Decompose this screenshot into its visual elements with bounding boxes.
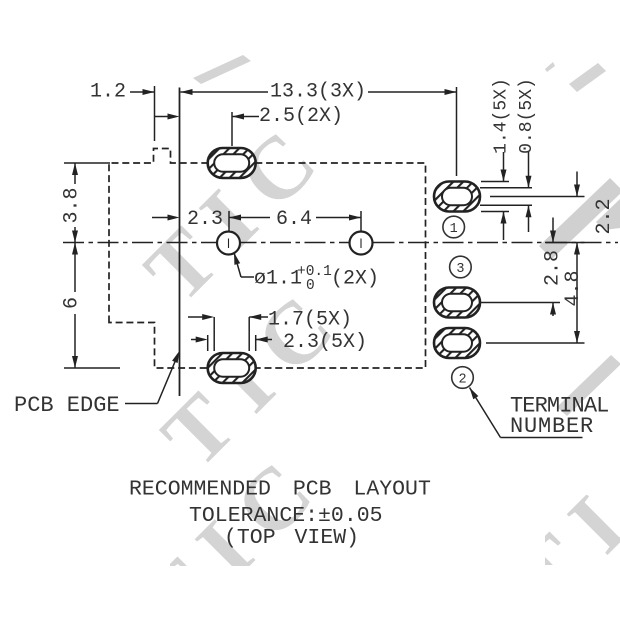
dimension 2.8 — [481, 218, 565, 317]
svg-text:6.4: 6.4 — [276, 208, 312, 231]
terminal number 1 balloon — [443, 216, 465, 238]
svg-text:3: 3 — [456, 262, 464, 277]
svg-text:2.3(5X): 2.3(5X) — [283, 331, 367, 354]
svg-text:2.5(2X): 2.5(2X) — [259, 105, 343, 128]
dimension 1.4(5X) — [481, 78, 512, 240]
hole H2 right — [350, 232, 373, 255]
dimension 1.2 — [90, 81, 180, 142]
svg-text:2.2: 2.2 — [593, 198, 616, 234]
svg-text:4.8: 4.8 — [562, 270, 585, 306]
dimension 2.3 — [152, 208, 223, 231]
pad P5 bottom-left — [208, 353, 256, 383]
dimension hole callout 1.1 — [231, 252, 379, 294]
svg-text:TOLERANCE:±0.05: TOLERANCE:±0.05 — [189, 504, 383, 528]
wire component outline dashed — [109, 149, 426, 369]
pad P1 terminal 1 right — [434, 182, 480, 212]
svg-text:1.7(5X): 1.7(5X) — [268, 309, 352, 332]
dimension 1.7(5X) — [188, 309, 352, 352]
dimension 2.5(2X) — [232, 105, 343, 146]
dimension 13.3(3X) — [181, 81, 457, 177]
terminal number 2 balloon — [452, 367, 474, 389]
label title block — [129, 478, 431, 550]
dimension 3.8 — [61, 163, 111, 243]
dimension 4.8 — [486, 243, 585, 344]
svg-text:1.2: 1.2 — [90, 81, 126, 104]
svg-text:NUMBER: NUMBER — [510, 414, 594, 439]
watermark tiles — [123, 55, 620, 620]
svg-text:ø1.1: ø1.1 — [254, 268, 302, 291]
terminal number 3 balloon — [450, 256, 472, 278]
svg-text:13.3(3X): 13.3(3X) — [270, 81, 366, 104]
svg-text:0.8(5X): 0.8(5X) — [517, 78, 537, 154]
svg-text:6: 6 — [61, 297, 84, 309]
svg-text:1: 1 — [450, 222, 458, 237]
svg-text:PCB EDGE: PCB EDGE — [14, 393, 120, 418]
svg-text:1.4(5X): 1.4(5X) — [492, 78, 512, 154]
dimension 6 — [61, 243, 121, 369]
label TERMINAL NUMBER — [467, 386, 608, 439]
dimension 2.2 — [490, 172, 616, 243]
pad P2 terminal 2 right — [434, 328, 480, 358]
wire PCB edge vertical line — [179, 88, 181, 397]
dimension 0.8(5X) — [480, 78, 537, 232]
svg-text:2: 2 — [458, 372, 466, 387]
svg-text:2.3: 2.3 — [187, 208, 223, 231]
pad P3 terminal 3 right — [434, 288, 480, 318]
node horizontal centerline — [63, 242, 618, 244]
svg-text:0: 0 — [306, 278, 315, 294]
label PCB EDGE — [14, 350, 182, 418]
svg-text:(2X): (2X) — [331, 268, 379, 291]
dimension 6.4 — [229, 208, 361, 231]
pad P4 top-left — [208, 148, 256, 178]
svg-text:RECOMMENDED PCB LAYOUT: RECOMMENDED PCB LAYOUT — [129, 478, 431, 502]
svg-text:3.8: 3.8 — [61, 187, 84, 223]
svg-text:(TOP VIEW): (TOP VIEW) — [224, 526, 359, 550]
hole H1 left — [217, 232, 240, 255]
dimension 2.3(5X) — [191, 331, 367, 354]
